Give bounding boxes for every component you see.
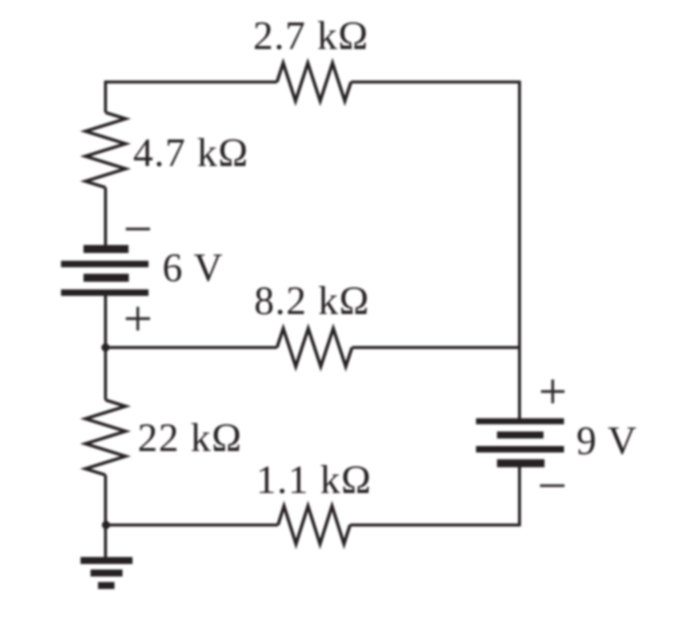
svg-text:2.7 kΩ: 2.7 kΩ xyxy=(253,13,369,58)
svg-text:4.7 kΩ: 4.7 kΩ xyxy=(133,130,249,175)
svg-text:6 V: 6 V xyxy=(162,245,223,290)
svg-text:22 kΩ: 22 kΩ xyxy=(138,415,243,460)
svg-text:8.2 kΩ: 8.2 kΩ xyxy=(254,278,370,323)
svg-text:1.1 kΩ: 1.1 kΩ xyxy=(256,457,372,502)
svg-text:9 V: 9 V xyxy=(576,418,637,463)
